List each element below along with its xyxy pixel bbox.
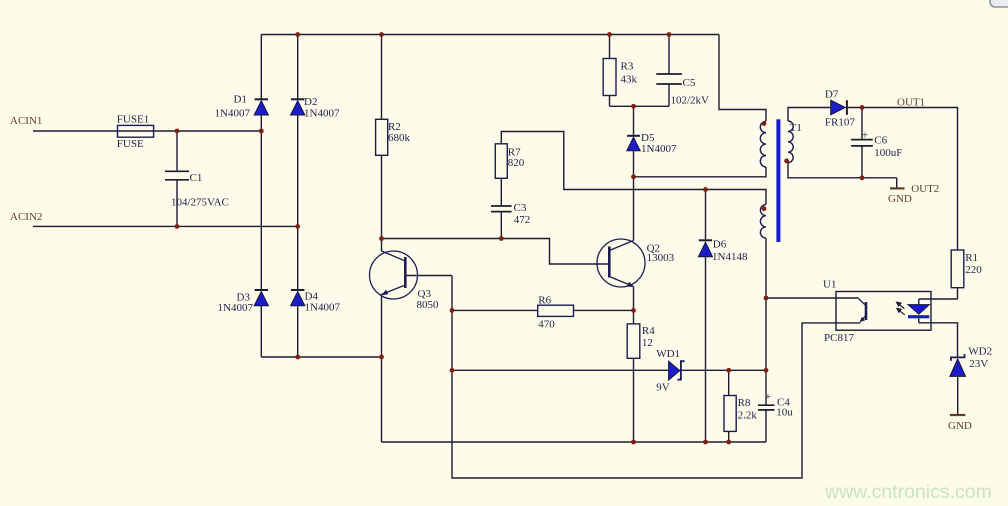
wire R2 column — [381, 35, 383, 239]
wire ACIN2 rail — [33, 225, 298, 227]
wire aux winding bottom column to C4 — [765, 238, 767, 442]
capacitor C4 polarized — [758, 405, 775, 410]
junction D5 / Q2 collector — [631, 174, 636, 179]
wire Q2 emitter to R6/R4 node — [633, 287, 635, 311]
svg-text:102/2kV: 102/2kV — [671, 94, 710, 106]
wire D5 junction to primary bottom — [634, 167, 767, 177]
wire D3 column — [260, 131, 262, 357]
junction bottom bus / D6 — [703, 440, 708, 445]
zener diode WD2 — [950, 354, 966, 376]
wire R3-C5 bottom rail — [610, 105, 670, 107]
svg-text:C3: C3 — [514, 202, 527, 214]
svg-text:13003: 13003 — [647, 252, 675, 264]
junction R2 / Q3 collector — [379, 236, 384, 241]
wire D5 column — [633, 106, 635, 177]
transformer T1 secondary polarity dot — [784, 159, 789, 164]
junction R3 rail / D5 — [631, 104, 636, 109]
svg-text:FR107: FR107 — [825, 117, 855, 129]
junction ACIN2/C1 — [175, 224, 180, 229]
svg-text:D2: D2 — [304, 96, 317, 108]
svg-text:2.2k: 2.2k — [738, 410, 758, 422]
svg-text:472: 472 — [514, 214, 531, 226]
svg-text:8050: 8050 — [417, 299, 440, 311]
svg-text:+: + — [862, 130, 868, 142]
zener diode WD1 — [669, 361, 685, 380]
capacitor C3 — [491, 206, 512, 212]
svg-text:1N4007: 1N4007 — [215, 108, 251, 120]
junction OUT1 wire / C6 — [860, 105, 865, 110]
svg-text:220: 220 — [965, 264, 982, 276]
ground symbol WD2 — [950, 414, 966, 416]
svg-text:43k: 43k — [621, 73, 638, 85]
svg-text:1N4007: 1N4007 — [304, 108, 340, 120]
wire OUT2 ground stub — [896, 178, 898, 188]
junction node vertical / R6 — [450, 308, 455, 313]
junction aux column / WD1 rail / C4 — [764, 368, 769, 373]
diode D3 — [254, 289, 268, 306]
optocoupler U1 light arrows — [897, 302, 905, 315]
diode D6 — [699, 239, 713, 256]
svg-text:PC817: PC817 — [824, 332, 854, 344]
svg-text:www.cntronics.com: www.cntronics.com — [824, 481, 992, 503]
svg-text:+: + — [765, 391, 771, 403]
svg-text:9V: 9V — [656, 381, 670, 393]
svg-text:FUSE1: FUSE1 — [117, 114, 149, 126]
svg-text:1N4007: 1N4007 — [218, 302, 254, 314]
wire R8 pins — [728, 370, 730, 442]
svg-text:T1: T1 — [790, 122, 802, 134]
transistor Q3 — [370, 251, 418, 299]
svg-text:GND: GND — [948, 420, 972, 432]
svg-text:12: 12 — [642, 337, 653, 349]
wire D1 column — [260, 35, 262, 132]
svg-text:ACIN1: ACIN1 — [10, 115, 42, 127]
junction node vertical / WD1 rail — [450, 368, 455, 373]
svg-text:D1: D1 — [234, 94, 247, 106]
svg-text:470: 470 — [538, 318, 555, 330]
wire D4 column — [297, 226, 299, 357]
wire C3 column — [500, 178, 502, 238]
transformer T1 primary winding — [760, 121, 766, 167]
wire C1 column — [176, 131, 178, 226]
wire Q2 collector — [633, 177, 635, 241]
svg-text:D7: D7 — [825, 89, 839, 101]
junction bridge bus / Q3 emitter — [379, 355, 384, 360]
svg-text:U1: U1 — [823, 279, 836, 291]
capacitor C1 — [165, 171, 189, 180]
diode D1 — [254, 98, 268, 115]
wire Q3 collector — [381, 239, 383, 252]
junction bridge bus / D4 — [295, 355, 300, 360]
svg-text:OUT1: OUT1 — [897, 96, 925, 108]
resistor R6 — [538, 305, 574, 316]
junction OUT2 rail / C6 — [860, 175, 865, 180]
transformer T1 aux winding — [760, 205, 766, 239]
svg-text:1N4007: 1N4007 — [305, 302, 341, 314]
resistor R2 — [376, 119, 388, 155]
resistor R1 — [951, 250, 964, 288]
junction top bus / C5 — [667, 32, 672, 37]
diode D7 — [831, 100, 848, 115]
junction top bus / D2 — [295, 32, 300, 37]
wire R7 loop to aux winding — [501, 132, 766, 205]
junction bottom bus / R4 — [631, 440, 636, 445]
junction ACIN1/D1-D3 — [259, 129, 264, 134]
svg-text:100uF: 100uF — [874, 147, 902, 159]
svg-text:C6: C6 — [874, 135, 887, 147]
resistor R8 — [724, 396, 736, 432]
svg-text:C5: C5 — [683, 77, 696, 89]
diode D2 — [291, 98, 305, 115]
svg-text:OUT2: OUT2 — [911, 183, 939, 195]
wire base node vertical / feedback loop to opto emitter — [452, 276, 861, 479]
svg-text:104/275VAC: 104/275VAC — [171, 197, 229, 209]
ground symbol OUT2 — [890, 187, 905, 189]
svg-text:820: 820 — [508, 157, 525, 169]
wire bridge bottom bus — [261, 356, 381, 358]
wire R4 column — [633, 310, 635, 442]
resistor R3 — [603, 59, 616, 96]
junction WD1 rail / R8 — [726, 368, 731, 373]
svg-text:R1: R1 — [965, 252, 978, 264]
svg-text:R8: R8 — [738, 397, 751, 409]
wire top bus to primary top — [719, 35, 766, 122]
junction bottom bus / R8 — [726, 440, 731, 445]
svg-text:R3: R3 — [621, 61, 634, 73]
wire opto LED cathode to WD2 — [919, 318, 958, 357]
UI scroll button fragment top-right — [990, 0, 1008, 7]
wire C5 column — [668, 35, 670, 107]
wire WD1 rail — [452, 369, 766, 371]
wire ACIN1 rail — [33, 130, 261, 132]
optocoupler U1 phototransistor — [858, 299, 866, 322]
wire WD2 anode to ground — [957, 376, 959, 415]
optocoupler U1 LED — [908, 305, 929, 319]
svg-text:1N4148: 1N4148 — [712, 251, 748, 263]
svg-text:R6: R6 — [538, 294, 551, 306]
svg-text:WD2: WD2 — [968, 346, 992, 358]
transformer T1 secondary winding — [788, 121, 793, 163]
svg-text:D6: D6 — [713, 239, 727, 251]
transformer T1 aux polarity dot — [762, 206, 767, 211]
wire secondary top to D7 — [788, 108, 831, 122]
junction ACIN1/C1 — [175, 129, 180, 134]
wire opto collector feed — [766, 297, 858, 299]
svg-text:FUSE: FUSE — [117, 138, 144, 150]
capacitor C6 polarized — [851, 140, 873, 146]
capacitor C5 — [656, 74, 682, 84]
diode D5 — [627, 135, 640, 151]
wire R6 pins — [452, 309, 634, 311]
svg-text:C1: C1 — [190, 172, 203, 184]
junction ACIN2/D2-D4 — [295, 224, 300, 229]
resistor R4 — [627, 324, 640, 358]
svg-text:1N4007: 1N4007 — [641, 143, 677, 155]
wire R3 column — [609, 35, 611, 107]
junction Q2 emitter / R6 / R4 — [631, 308, 636, 313]
wire bottom bus — [382, 441, 767, 443]
junction aux column / opto collector wire — [764, 296, 769, 301]
wire D7 cathode to OUT1 / R1 top — [847, 108, 958, 251]
wire D2 column — [297, 35, 299, 227]
wire Q3 base to node — [405, 275, 452, 277]
transformer T1 core — [776, 119, 780, 242]
svg-text:10u: 10u — [776, 407, 793, 419]
svg-text:WD1: WD1 — [656, 348, 680, 360]
svg-text:R4: R4 — [642, 325, 655, 337]
wire Q2 base feed — [382, 239, 610, 265]
wire Q3 emitter to bottom bus — [381, 295, 383, 443]
junction C3 / base wire — [499, 236, 504, 241]
svg-text:ACIN2: ACIN2 — [10, 211, 42, 223]
wire secondary bottom rail — [788, 163, 897, 178]
wire top bus — [261, 34, 719, 36]
svg-text:23V: 23V — [969, 358, 988, 370]
junction aux top rail / D6 — [703, 187, 708, 192]
resistor R7 — [495, 144, 507, 179]
wire C6 column — [861, 108, 863, 178]
transformer T1 primary polarity dot — [762, 121, 767, 126]
junction top bus / R2 — [379, 32, 384, 37]
svg-text:680k: 680k — [388, 132, 411, 144]
fuse FUSE1 — [118, 125, 154, 137]
wire D6 column — [705, 190, 707, 443]
svg-text:GND: GND — [888, 193, 912, 205]
optocoupler U1 body — [836, 292, 931, 331]
wire R1 bottom to opto LED anode — [919, 288, 958, 299]
diode D4 — [291, 289, 305, 306]
transistor Q2 — [597, 239, 645, 287]
junction top bus / R3 — [607, 32, 612, 37]
